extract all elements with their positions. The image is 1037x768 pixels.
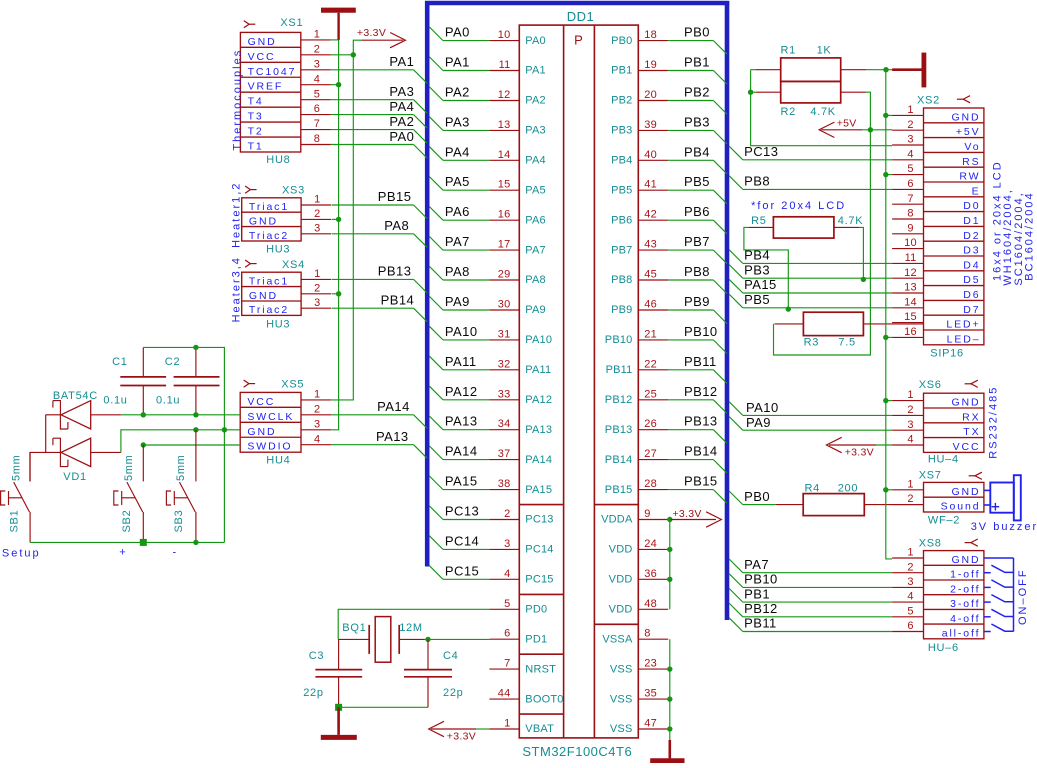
svg-text:3: 3: [314, 222, 320, 234]
svg-text:VD1: VD1: [63, 471, 87, 483]
svg-text:3: 3: [314, 297, 320, 309]
svg-text:D1: D1: [963, 215, 980, 227]
junction XS1 VCC: [351, 52, 356, 57]
wire/net label PA6 to bus: [429, 204, 489, 220]
DD1 pin 9 (VDDA): [601, 508, 668, 526]
svg-text:46: 46: [644, 299, 657, 311]
svg-text:E: E: [972, 185, 981, 197]
switch SB3: [166, 430, 196, 543]
svg-text:1: 1: [314, 268, 320, 280]
svg-text:PB1: PB1: [611, 65, 632, 77]
wire/net label PB7 to bus: [668, 234, 727, 264]
DD1 pin 25 (PB12): [605, 388, 668, 406]
svg-text:16: 16: [498, 209, 511, 221]
svg-text:BAT54C: BAT54C: [53, 390, 98, 402]
wire +3.3V vertical: [331, 55, 353, 400]
svg-text:PB0: PB0: [611, 35, 632, 47]
wire Vo net: [751, 70, 893, 146]
svg-text:XS6: XS6: [919, 379, 942, 391]
svg-text:Triac2: Triac2: [249, 304, 289, 316]
svg-text:R3: R3: [804, 337, 819, 349]
svg-text:12: 12: [904, 267, 917, 279]
wire/net label PA11 to bus: [429, 354, 489, 370]
diode VD1 upper (BAT54C): [53, 390, 121, 429]
DD1 pin 40 (PB4): [611, 149, 668, 167]
label SC1604/2004: [1013, 191, 1025, 285]
svg-text:PB11: PB11: [606, 364, 633, 376]
wire XS5 net PA13: [331, 429, 427, 458]
svg-text:PB6: PB6: [684, 204, 710, 219]
svg-text:PA13: PA13: [376, 429, 409, 444]
svg-text:10: 10: [904, 237, 917, 249]
svg-text:PB14: PB14: [605, 454, 633, 466]
wire bottom rail: [30, 541, 224, 543]
svg-text:PA2: PA2: [445, 85, 470, 100]
svg-text:1K: 1K: [817, 45, 832, 57]
svg-text:11: 11: [499, 59, 511, 71]
DD1 pin 15 (PA5): [489, 179, 545, 197]
svg-text:PA10: PA10: [525, 334, 552, 346]
svg-text:PB0: PB0: [744, 489, 770, 504]
svg-text:3-off: 3-off: [950, 598, 980, 610]
svg-text:VREF: VREF: [248, 81, 284, 93]
wire/net label PB2 to bus: [668, 85, 727, 115]
power GND bar right: [892, 53, 924, 88]
svg-text:D7: D7: [963, 304, 980, 316]
label STM32F100C4T6: [522, 744, 632, 759]
svg-text:2: 2: [907, 404, 913, 416]
svg-text:PB13: PB13: [378, 264, 412, 279]
svg-text:BQ1: BQ1: [342, 622, 366, 634]
wire R5 left: [744, 227, 788, 309]
svg-text:D3: D3: [963, 245, 980, 257]
junction XS4 GND: [336, 291, 341, 296]
junction SB3 bottom: [193, 540, 198, 545]
svg-text:33: 33: [498, 388, 511, 400]
svg-text:35: 35: [644, 688, 657, 700]
wire/net label PA14 to bus: [429, 444, 489, 460]
DD1 pin 38 (PA15): [489, 478, 552, 496]
junction VSS 35: [667, 696, 672, 701]
svg-text:PA8: PA8: [384, 218, 409, 233]
junction C4 top: [425, 637, 430, 642]
wire XS3 net PB15: [332, 189, 427, 218]
svg-text:*for 20x4 LCD: *for 20x4 LCD: [751, 200, 846, 212]
svg-text:PA15: PA15: [445, 474, 478, 489]
svg-text:2: 2: [504, 508, 510, 520]
svg-text:1: 1: [314, 29, 320, 41]
connector XS2: [892, 95, 984, 360]
svg-text:LED–: LED–: [947, 333, 981, 345]
svg-text:8: 8: [644, 628, 650, 640]
svg-text:0.1u: 0.1u: [103, 394, 127, 406]
wire net PB0: [729, 489, 776, 505]
svg-text:PA2: PA2: [525, 95, 546, 107]
svg-text:PC13: PC13: [744, 144, 778, 159]
wire/net label PA13 to bus: [429, 414, 489, 430]
svg-text:Heater1,2: Heater1,2: [231, 182, 243, 248]
junction XS3 GND: [336, 217, 341, 222]
label plus: [119, 547, 127, 559]
DD1 pin 36 (VDD): [609, 568, 669, 586]
connector XS6: [892, 379, 984, 465]
svg-text:PB10: PB10: [684, 324, 718, 339]
svg-text:PB14: PB14: [684, 444, 718, 459]
svg-text:24: 24: [644, 538, 657, 550]
svg-text:6: 6: [907, 178, 913, 190]
svg-text:TX: TX: [963, 426, 980, 438]
svg-text:PA6: PA6: [525, 214, 546, 226]
wire/net label PA1 to bus: [429, 55, 489, 71]
svg-text:GND: GND: [951, 554, 980, 566]
svg-text:5mm: 5mm: [10, 454, 22, 481]
DD1 pin 20 (PB2): [611, 89, 668, 107]
svg-text:PA3: PA3: [525, 125, 546, 137]
wire/net label PA2 to bus: [429, 85, 489, 101]
svg-text:DD1: DD1: [567, 9, 595, 24]
wire net PB5: [729, 292, 892, 308]
svg-text:XS1: XS1: [280, 17, 303, 29]
svg-text:2: 2: [314, 282, 320, 294]
wire/net label PA7 to bus: [429, 234, 489, 250]
DD1 pin 30 (PA9): [489, 299, 545, 317]
wire/net label PA15 to bus: [429, 474, 489, 490]
svg-text:PB1: PB1: [744, 586, 770, 601]
wire/net label PB9 to bus: [668, 294, 727, 324]
wire XS6 pin1: [886, 400, 892, 402]
junction VDD 24: [667, 547, 672, 552]
svg-text:HU–4: HU–4: [928, 453, 959, 465]
svg-text:GND: GND: [247, 426, 276, 438]
svg-text:PB5: PB5: [744, 292, 770, 307]
svg-text:VCC: VCC: [247, 396, 275, 408]
svg-text:VSS: VSS: [610, 663, 633, 675]
DD1 pin 6 (PD1): [489, 628, 547, 646]
DD1 pin 16 (PA6): [489, 209, 545, 227]
svg-text:PA2: PA2: [389, 114, 414, 129]
wire/net label PC13 to bus: [429, 504, 489, 520]
junction VDDA: [667, 517, 672, 522]
svg-text:36: 36: [644, 568, 657, 580]
resistor R1: [781, 45, 841, 82]
svg-text:48: 48: [644, 598, 657, 610]
connector XS3: [242, 185, 332, 256]
bus right edge: [725, 1, 730, 620]
svg-text:3: 3: [907, 134, 913, 146]
DD1 pin 34 (PA13): [489, 418, 552, 436]
IC DD1 body STM32F100C4T6: [519, 25, 638, 738]
svg-text:22p: 22p: [303, 687, 323, 699]
svg-text:38: 38: [498, 478, 511, 490]
svg-text:PB3: PB3: [744, 262, 770, 277]
svg-text:SB2: SB2: [121, 510, 133, 533]
svg-text:PA9: PA9: [746, 415, 771, 430]
label for 20x4 LCD: [751, 200, 846, 212]
svg-text:PA0: PA0: [525, 35, 546, 47]
svg-text:VCC: VCC: [248, 51, 276, 63]
svg-text:PA15: PA15: [525, 484, 552, 496]
svg-text:20: 20: [644, 89, 657, 101]
svg-text:7: 7: [907, 193, 913, 205]
svg-text:SWDIO: SWDIO: [247, 441, 292, 453]
svg-text:PA4: PA4: [389, 99, 414, 114]
wire R4 right: [864, 504, 923, 506]
svg-text:3: 3: [907, 576, 913, 588]
DD1 pin 48 (VDD): [609, 598, 669, 616]
svg-text:1: 1: [907, 104, 913, 116]
wire XS1 pin2 VCC: [331, 54, 353, 56]
svg-text:+3.3V: +3.3V: [673, 508, 702, 520]
DD1 pin 12 (PA2): [489, 89, 545, 107]
resistor R4: [803, 482, 864, 515]
wire R1 right: [841, 69, 892, 71]
svg-text:+5V: +5V: [837, 117, 857, 129]
svg-text:RX: RX: [962, 411, 980, 423]
svg-text:SIP16: SIP16: [930, 348, 963, 360]
switch SB2: [114, 445, 144, 542]
wire caps bottom: [339, 706, 428, 708]
svg-text:+3.3V: +3.3V: [357, 27, 386, 39]
svg-text:1: 1: [907, 389, 913, 401]
svg-text:PB10: PB10: [605, 334, 633, 346]
svg-text:PA10: PA10: [445, 324, 478, 339]
wire R3 left: [775, 323, 804, 325]
power +3.3V top arrow: [353, 27, 405, 55]
junction R1 right: [883, 67, 888, 72]
svg-text:27: 27: [644, 448, 657, 460]
wire net PB8: [729, 174, 892, 190]
DD1 pin 5 (PD0): [489, 598, 547, 616]
svg-text:17: 17: [498, 239, 511, 251]
svg-text:PC15: PC15: [525, 574, 553, 586]
svg-text:Heater3,4: Heater3,4: [231, 256, 243, 322]
svg-text:HU3: HU3: [266, 243, 290, 255]
svg-text:PA12: PA12: [525, 394, 552, 406]
svg-text:GND: GND: [248, 36, 277, 48]
junction R5 to PB3: [861, 277, 866, 282]
wire net PA15: [729, 277, 892, 293]
svg-text:R1: R1: [781, 45, 796, 57]
wire/net label PA4 to bus: [429, 144, 489, 160]
svg-text:+3.3V: +3.3V: [447, 730, 476, 742]
wire/net label PA12 to bus: [429, 384, 489, 400]
wire XS4 net PB13: [332, 264, 427, 293]
svg-text:VDD: VDD: [609, 544, 633, 556]
wire net PA10: [729, 400, 892, 415]
wire PD0 to crystal: [338, 609, 489, 639]
wire net PA9: [729, 415, 892, 430]
wire/net label PA5 to bus: [429, 174, 489, 190]
svg-text:PB4: PB4: [744, 248, 770, 263]
svg-text:PB7: PB7: [684, 234, 710, 249]
svg-text:PC13: PC13: [445, 504, 479, 519]
wire/net label PB6 to bus: [668, 204, 727, 234]
junction XS2 RW: [883, 172, 888, 177]
svg-text:PB7: PB7: [611, 244, 632, 256]
wire XS1 pin1 to GND bar: [331, 39, 339, 41]
svg-text:1: 1: [314, 389, 320, 401]
svg-text:PB8: PB8: [684, 264, 710, 279]
wire net PB3: [729, 262, 892, 278]
wire R2 left: [751, 91, 781, 93]
svg-text:PB15: PB15: [605, 484, 633, 496]
wire XS2 pin1: [886, 114, 892, 116]
wire/net label PB11 to bus: [668, 354, 727, 384]
DD1 pin 7 (NRST): [489, 658, 556, 676]
wire/net label PA10 to bus: [429, 324, 489, 340]
junction VDD 36: [667, 577, 672, 582]
svg-text:SB1: SB1: [8, 510, 20, 533]
wire R4 left: [776, 504, 803, 506]
bus top edge: [425, 1, 729, 6]
svg-text:6: 6: [907, 620, 913, 632]
svg-text:D4: D4: [963, 259, 980, 271]
svg-text:4: 4: [907, 148, 913, 160]
junction XS1 VREF: [336, 82, 341, 87]
crystal BQ1: [338, 617, 424, 663]
DD1 pin 32 (PA11): [489, 358, 551, 376]
svg-text:1: 1: [314, 194, 320, 206]
svg-text:22: 22: [644, 358, 657, 370]
svg-text:PB10: PB10: [744, 572, 778, 587]
DD1 pin 19 (PB1): [611, 59, 668, 77]
svg-text:28: 28: [644, 478, 657, 490]
wire/net label PB0 to bus: [668, 25, 727, 55]
junction SB2 top: [141, 442, 146, 447]
DD1 pin 45 (PB8): [611, 269, 668, 287]
svg-text:PB2: PB2: [611, 95, 632, 107]
svg-text:SWCLK: SWCLK: [247, 411, 294, 423]
wire XS2 pin16: [886, 336, 892, 338]
svg-text:NRST: NRST: [525, 663, 556, 675]
svg-text:Setup: Setup: [2, 547, 41, 559]
svg-text:VSS: VSS: [610, 723, 633, 735]
svg-text:PC14: PC14: [525, 544, 553, 556]
svg-text:PA5: PA5: [525, 184, 546, 196]
svg-text:+5V: +5V: [956, 126, 981, 138]
svg-text:PA15: PA15: [744, 277, 777, 292]
junction VSS 47: [667, 726, 672, 731]
svg-text:1: 1: [907, 478, 913, 490]
svg-text:Triac1: Triac1: [249, 201, 289, 213]
svg-text:PB13: PB13: [684, 414, 718, 429]
svg-text:43: 43: [644, 239, 657, 251]
svg-text:3: 3: [314, 418, 320, 430]
svg-text:VCC: VCC: [953, 441, 981, 453]
svg-text:PB15: PB15: [684, 474, 718, 489]
svg-text:44: 44: [498, 688, 511, 700]
svg-text:VSSA: VSSA: [602, 633, 633, 645]
svg-text:3: 3: [314, 58, 320, 70]
svg-text:10: 10: [498, 29, 511, 41]
svg-text:23: 23: [644, 658, 657, 670]
svg-text:C3: C3: [309, 650, 324, 662]
label DD1: [567, 9, 595, 24]
wire XS7 pin1: [886, 489, 892, 491]
svg-text:PB12: PB12: [605, 394, 633, 406]
power +3.3V at VBAT: [429, 721, 490, 742]
svg-text:5: 5: [907, 163, 913, 175]
svg-text:ON–OFF: ON–OFF: [1017, 568, 1029, 625]
svg-text:PA13: PA13: [445, 414, 478, 429]
svg-text:PD1: PD1: [525, 633, 547, 645]
junction R5 to PB5: [786, 306, 791, 311]
label BC1604/2004: [1023, 191, 1035, 280]
svg-text:PA7: PA7: [744, 557, 769, 572]
wire/net label PA9 to bus: [429, 294, 489, 310]
bus left edge: [425, 1, 430, 567]
DD1 pin 14 (PA4): [489, 149, 545, 167]
junction VSS 23: [667, 666, 672, 671]
DD1 pin 41 (PB5): [611, 179, 668, 197]
DD1 pin 33 (PA12): [489, 388, 552, 406]
svg-text:PC14: PC14: [445, 533, 479, 548]
label Setup: [2, 547, 41, 559]
svg-text:2: 2: [907, 493, 913, 505]
svg-text:PA14: PA14: [377, 399, 410, 414]
junction C2 bottom: [193, 412, 198, 417]
DD1 pin 21 (PB10): [605, 328, 668, 346]
svg-text:PA5: PA5: [445, 174, 470, 189]
DD1 pin 11 (PA1): [489, 59, 545, 77]
svg-text:22p: 22p: [443, 687, 463, 699]
DD1 pin 10 (PA0): [489, 29, 545, 47]
DD1 pin 29 (PA8): [489, 269, 545, 287]
wire/net label PB4 to bus: [668, 144, 727, 174]
svg-text:37: 37: [498, 448, 511, 460]
label P unit: [574, 32, 583, 47]
svg-text:PA3: PA3: [445, 114, 470, 129]
resistor R2: [781, 81, 841, 118]
ground bar below DD1: [650, 740, 684, 761]
wire GND row: [121, 430, 240, 453]
wire net PA7: [729, 557, 892, 573]
DD1 pin 17 (PA7): [489, 239, 545, 257]
DD1 pin 43 (PB7): [611, 239, 668, 257]
svg-text:4-off: 4-off: [950, 613, 980, 625]
power GND bar top: [321, 10, 356, 40]
wire/net label PC15 to bus: [429, 563, 489, 579]
svg-text:PA7: PA7: [445, 234, 470, 249]
svg-text:5mm: 5mm: [175, 454, 187, 481]
DD1 pin 4 (PC15): [489, 568, 553, 586]
svg-text:25: 25: [644, 388, 657, 400]
wire XS1 net PA4: [331, 99, 427, 128]
svg-text:34: 34: [498, 418, 511, 430]
svg-text:PA7: PA7: [525, 244, 546, 256]
junction C2 top: [193, 345, 198, 350]
DD1 pin 35 (VSS): [610, 688, 668, 706]
wire XS4 net PB14: [332, 292, 427, 321]
wire net PB12: [729, 601, 892, 617]
svg-text:1-off: 1-off: [950, 569, 980, 581]
power +5V arrow: [819, 117, 892, 137]
svg-text:D2: D2: [963, 230, 980, 242]
svg-text:1: 1: [504, 718, 510, 730]
svg-text:PB9: PB9: [684, 294, 710, 309]
svg-text:2: 2: [314, 43, 320, 55]
DD1 pin 46 (PB9): [611, 299, 668, 317]
wire XS1 net PA1: [331, 54, 427, 83]
svg-text:PA1: PA1: [525, 65, 546, 77]
svg-text:2-off: 2-off: [950, 583, 980, 595]
svg-text:PB8: PB8: [744, 174, 770, 189]
wire SWDIO row: [143, 444, 240, 446]
svg-text:C1: C1: [112, 356, 127, 368]
svg-text:13: 13: [498, 119, 511, 131]
wire/net label PB1 to bus: [668, 55, 727, 85]
wire XS3 net PA8: [332, 218, 427, 247]
